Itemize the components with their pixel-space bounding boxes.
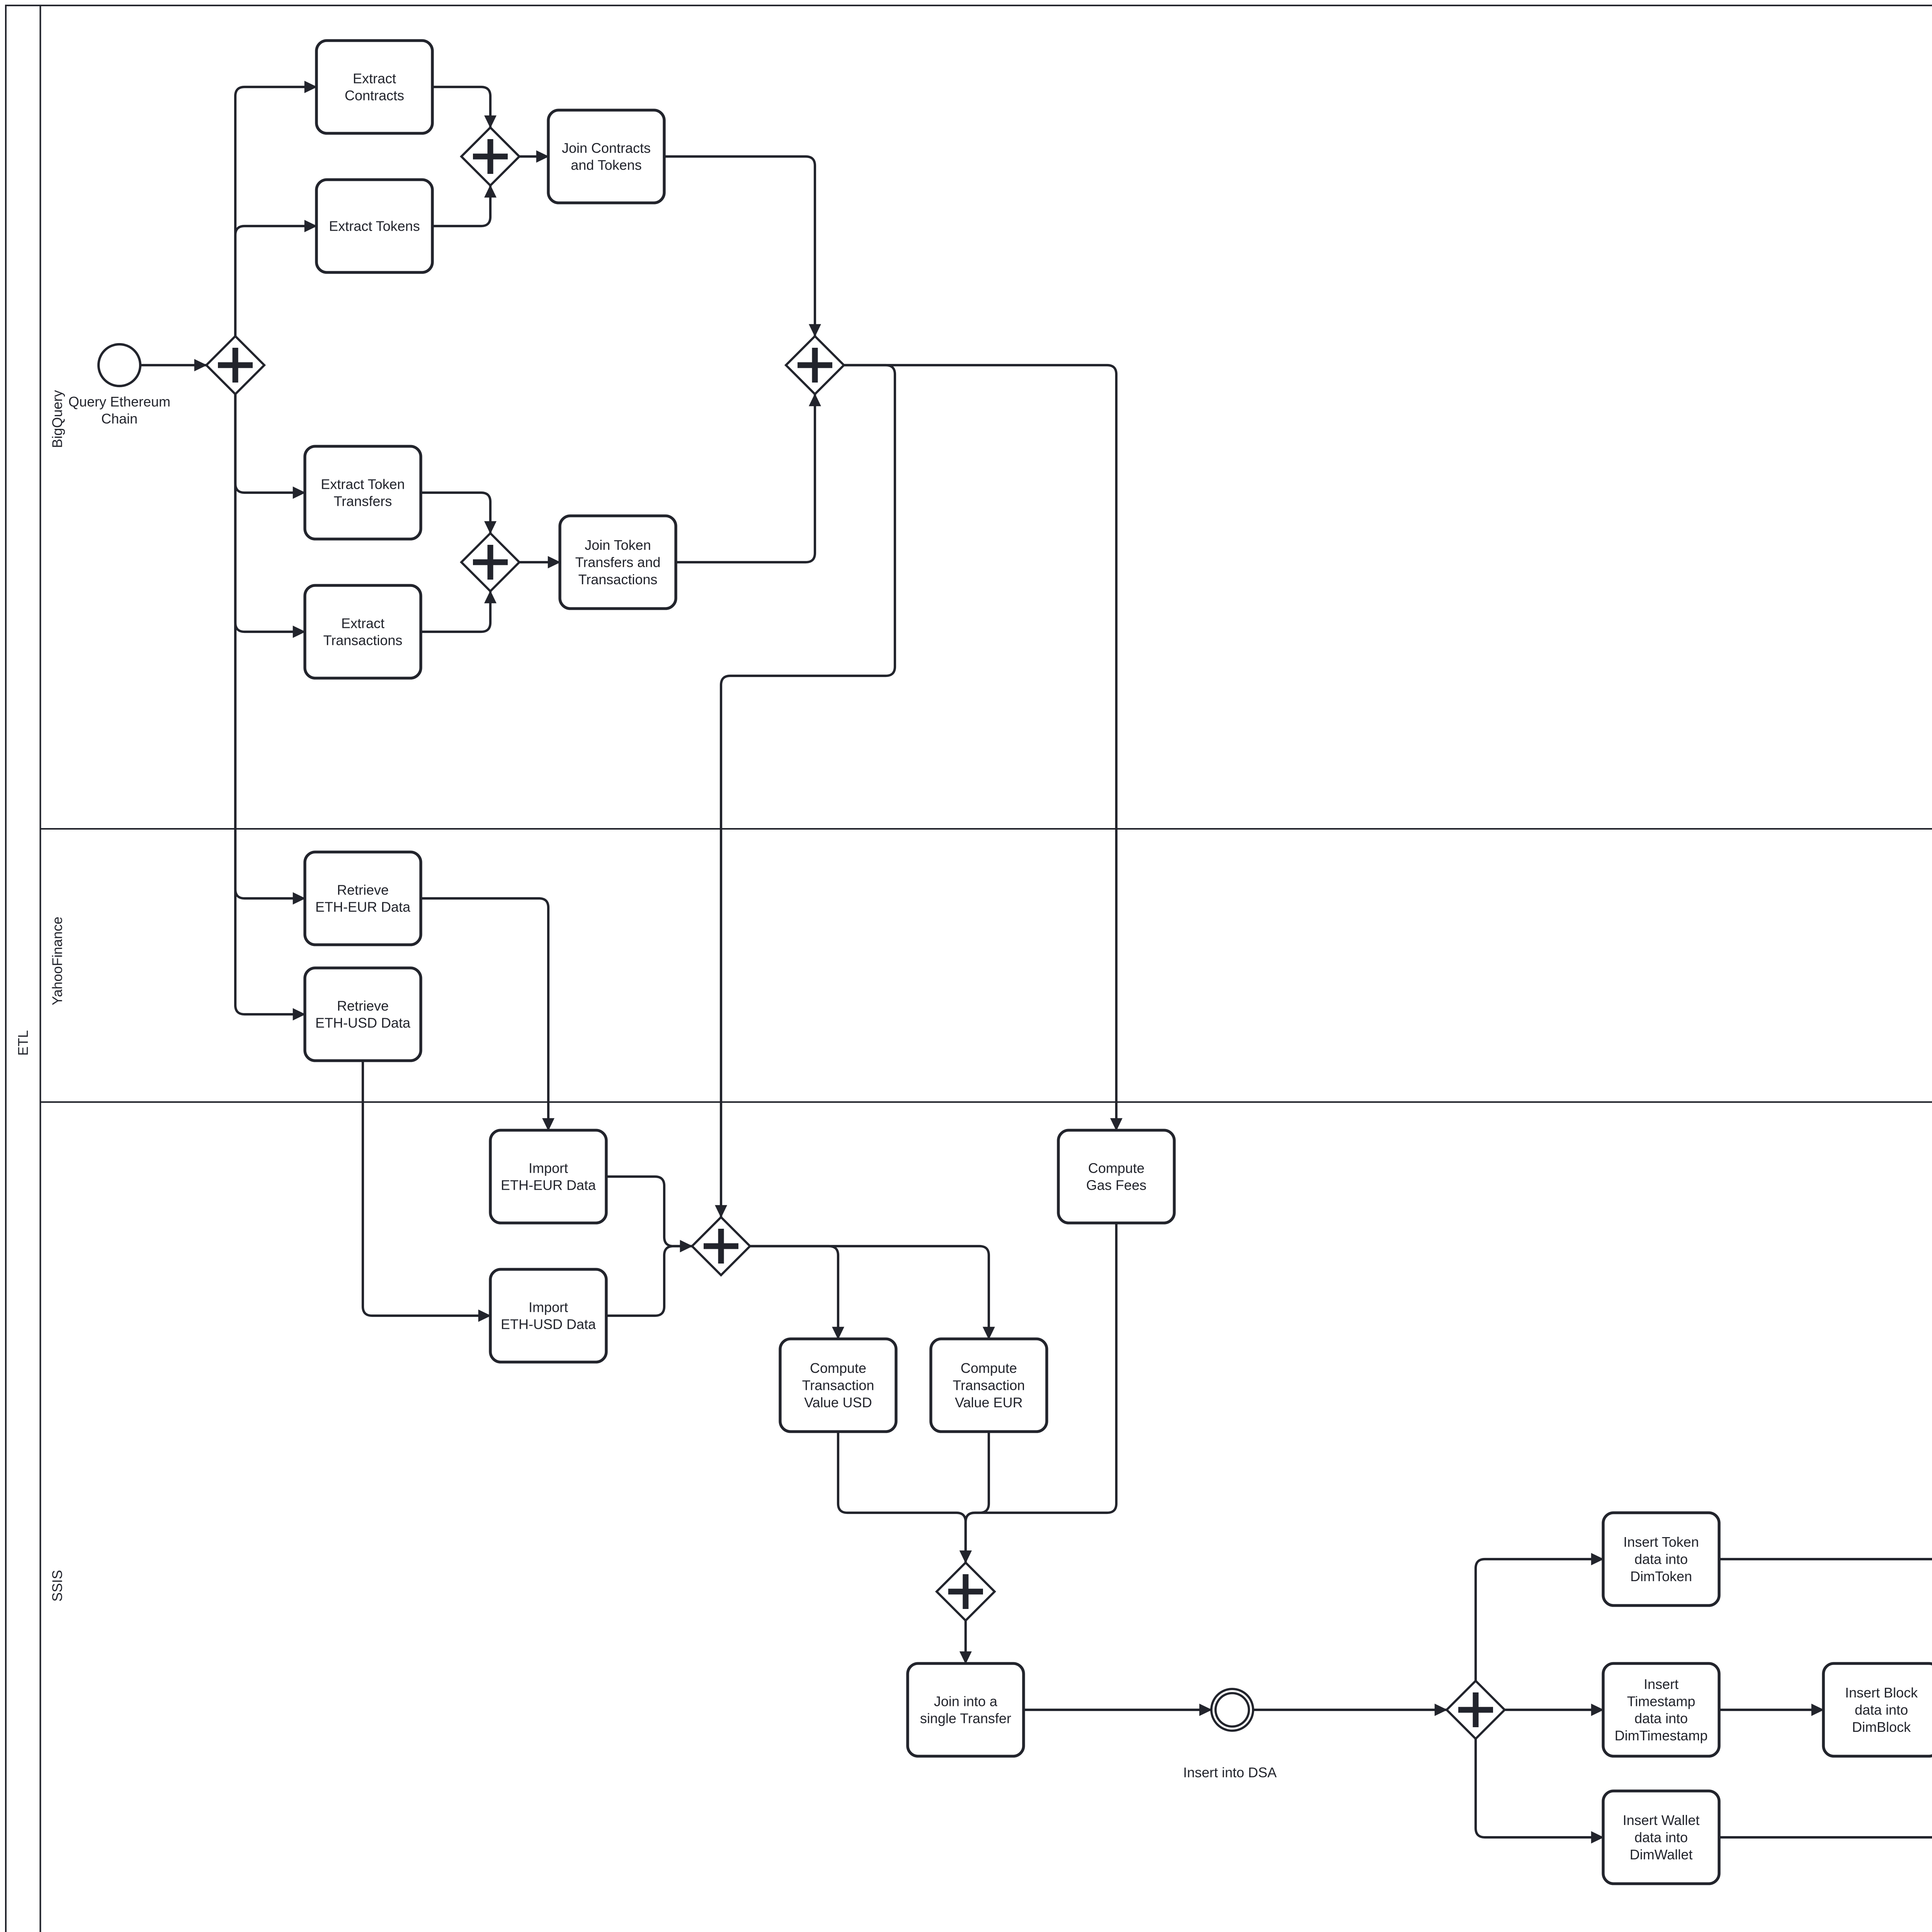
svg-text:Compute: Compute (1088, 1160, 1145, 1176)
svg-text:ETH-EUR Data: ETH-EUR Data (501, 1177, 596, 1193)
svg-text:Transactions: Transactions (578, 571, 658, 587)
svg-text:ETL: ETL (15, 1030, 31, 1056)
svg-text:ETH-USD Data: ETH-USD Data (315, 1015, 411, 1031)
svg-text:Retrieve: Retrieve (337, 998, 389, 1014)
svg-text:ETH-USD Data: ETH-USD Data (501, 1316, 596, 1332)
svg-text:data into: data into (1855, 1702, 1908, 1718)
svg-text:Chain: Chain (101, 411, 138, 427)
svg-text:single Transfer: single Transfer (920, 1711, 1011, 1726)
svg-text:Transaction: Transaction (802, 1378, 874, 1393)
svg-text:Retrieve: Retrieve (337, 882, 389, 898)
svg-text:DimToken: DimToken (1630, 1568, 1692, 1584)
svg-text:ETH-EUR Data: ETH-EUR Data (315, 899, 411, 915)
svg-text:Extract Tokens: Extract Tokens (329, 218, 420, 234)
svg-text:Join Contracts: Join Contracts (562, 140, 651, 156)
svg-text:BigQuery: BigQuery (49, 390, 65, 448)
svg-text:SSIS: SSIS (49, 1570, 65, 1602)
svg-text:Import: Import (529, 1160, 568, 1176)
svg-text:Gas Fees: Gas Fees (1086, 1177, 1146, 1193)
svg-text:Transaction: Transaction (953, 1378, 1025, 1393)
svg-text:Transfers and: Transfers and (575, 554, 661, 570)
svg-text:DimBlock: DimBlock (1852, 1719, 1911, 1735)
svg-text:DimWallet: DimWallet (1630, 1847, 1693, 1862)
svg-text:Join Token: Join Token (585, 537, 651, 553)
svg-text:Insert Block: Insert Block (1845, 1685, 1918, 1701)
svg-text:Insert into DSA: Insert into DSA (1183, 1765, 1277, 1781)
svg-text:Compute: Compute (961, 1360, 1017, 1376)
svg-text:Import: Import (529, 1299, 568, 1315)
svg-text:Insert Wallet: Insert Wallet (1623, 1812, 1700, 1828)
svg-text:Insert Token: Insert Token (1623, 1534, 1699, 1550)
svg-text:Join into a: Join into a (934, 1693, 998, 1709)
svg-text:Extract Token: Extract Token (321, 476, 405, 492)
svg-text:Query Ethereum: Query Ethereum (68, 394, 170, 410)
svg-text:data into: data into (1634, 1830, 1688, 1845)
svg-text:Value EUR: Value EUR (955, 1395, 1022, 1410)
svg-text:Contracts: Contracts (345, 88, 404, 104)
svg-text:and Tokens: and Tokens (571, 157, 641, 173)
svg-text:DimTimestamp: DimTimestamp (1615, 1728, 1708, 1743)
svg-text:data into: data into (1634, 1551, 1688, 1567)
svg-text:Transactions: Transactions (323, 633, 403, 648)
svg-text:Transfers: Transfers (334, 493, 392, 509)
svg-text:Insert: Insert (1644, 1676, 1679, 1692)
svg-text:Value USD: Value USD (804, 1395, 872, 1410)
svg-text:YahooFinance: YahooFinance (49, 917, 65, 1005)
svg-text:Compute: Compute (810, 1360, 866, 1376)
svg-text:Timestamp: Timestamp (1627, 1693, 1696, 1709)
svg-text:data into: data into (1634, 1711, 1688, 1726)
svg-text:Extract: Extract (353, 70, 396, 86)
svg-text:Extract: Extract (341, 615, 384, 631)
